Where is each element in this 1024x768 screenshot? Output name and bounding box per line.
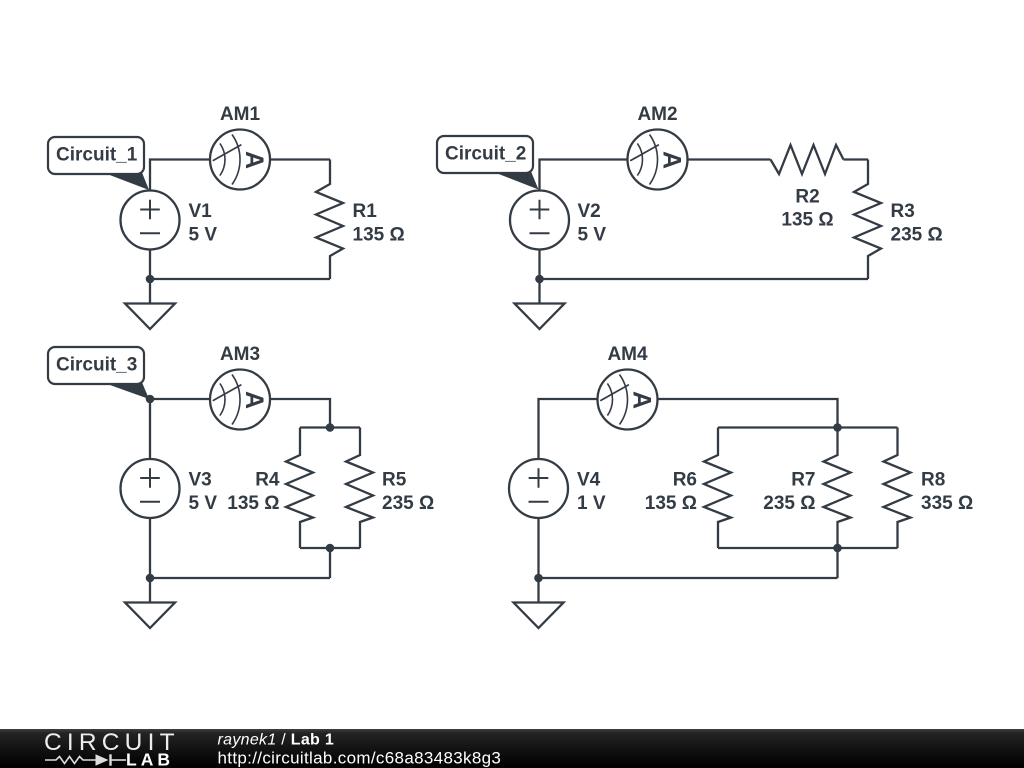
resistor R3 bbox=[854, 160, 943, 280]
svg-text:A: A bbox=[240, 151, 268, 169]
wire bbox=[658, 399, 838, 428]
svg-text:AM4: AM4 bbox=[607, 344, 648, 365]
wire bbox=[718, 547, 898, 549]
wire bbox=[540, 160, 628, 191]
wire bbox=[539, 577, 838, 579]
svg-text:Circuit_3: Circuit_3 bbox=[56, 355, 137, 376]
resistor R4 bbox=[227, 428, 313, 549]
wire bbox=[329, 548, 331, 578]
svg-text:1 V: 1 V bbox=[577, 493, 606, 514]
svg-text:135 Ω: 135 Ω bbox=[227, 493, 279, 514]
resistor R1 bbox=[316, 160, 405, 280]
junction bbox=[833, 423, 842, 432]
junction bbox=[833, 544, 842, 553]
svg-text:V1: V1 bbox=[189, 201, 213, 222]
svg-text:V3: V3 bbox=[189, 470, 212, 491]
svg-text:R8: R8 bbox=[921, 470, 945, 491]
wire bbox=[300, 547, 360, 549]
ammeter AM4 bbox=[598, 344, 658, 430]
svg-text:235 Ω: 235 Ω bbox=[763, 493, 815, 514]
svg-text:A: A bbox=[240, 391, 268, 409]
footer title raynek1 / Lab 1 bbox=[218, 732, 335, 749]
wire bbox=[718, 426, 898, 428]
wire bbox=[150, 160, 210, 191]
ground bbox=[514, 578, 564, 628]
resistor R6 bbox=[645, 428, 731, 549]
svg-text:http://circuitlab.com/c68a8348: http://circuitlab.com/c68a83483k8g3 bbox=[218, 749, 502, 768]
svg-text:5 V: 5 V bbox=[189, 225, 218, 246]
wire bbox=[300, 426, 360, 428]
wire bbox=[150, 278, 330, 280]
svg-text:R3: R3 bbox=[891, 201, 915, 222]
wire bbox=[150, 399, 210, 459]
svg-text:135 Ω: 135 Ω bbox=[645, 493, 697, 514]
logo LAB bbox=[126, 750, 174, 768]
wire bbox=[537, 518, 539, 578]
footer url bbox=[218, 749, 502, 768]
svg-text:raynek1 / Lab 1: raynek1 / Lab 1 bbox=[218, 732, 335, 749]
svg-text:Circuit_1: Circuit_1 bbox=[56, 145, 138, 166]
svg-text:AM1: AM1 bbox=[220, 104, 261, 125]
wire bbox=[149, 250, 151, 280]
svg-text:AM2: AM2 bbox=[637, 104, 677, 125]
svg-text:R6: R6 bbox=[673, 470, 697, 491]
svg-text:V2: V2 bbox=[578, 201, 601, 222]
svg-text:LAB: LAB bbox=[126, 750, 174, 768]
svg-text:335 Ω: 335 Ω bbox=[921, 493, 973, 514]
svg-text:R7: R7 bbox=[791, 470, 815, 491]
svg-text:A: A bbox=[658, 151, 686, 169]
svg-text:135 Ω: 135 Ω bbox=[353, 225, 405, 246]
wire bbox=[836, 548, 838, 578]
ground bbox=[125, 279, 175, 329]
voltage source V3 bbox=[121, 459, 218, 518]
wire bbox=[150, 577, 330, 579]
svg-text:R5: R5 bbox=[382, 470, 407, 491]
wire bbox=[270, 158, 330, 160]
svg-text:R1: R1 bbox=[353, 201, 378, 222]
wire bbox=[539, 399, 598, 459]
label Circuit_2 bbox=[437, 136, 539, 190]
svg-text:Circuit_2: Circuit_2 bbox=[445, 144, 526, 165]
wire bbox=[270, 399, 330, 428]
junction bbox=[326, 544, 335, 553]
svg-text:AM3: AM3 bbox=[220, 344, 260, 365]
svg-text:5 V: 5 V bbox=[189, 493, 218, 514]
junction bbox=[534, 574, 543, 583]
voltage source V4 bbox=[509, 459, 606, 518]
resistor R7 bbox=[763, 428, 850, 549]
junction bbox=[146, 275, 155, 284]
junction bbox=[535, 275, 544, 284]
ammeter AM1 bbox=[210, 104, 270, 190]
svg-text:235 Ω: 235 Ω bbox=[382, 493, 434, 514]
svg-text:R2: R2 bbox=[795, 186, 819, 207]
resistor R5 bbox=[346, 428, 434, 549]
svg-text:R4: R4 bbox=[255, 470, 280, 491]
logo CIRCUIT bbox=[44, 729, 180, 756]
voltage source V2 bbox=[510, 191, 606, 250]
ground bbox=[125, 578, 175, 628]
wire bbox=[538, 250, 540, 280]
svg-text:5 V: 5 V bbox=[578, 225, 607, 246]
svg-text:135 Ω: 135 Ω bbox=[781, 210, 833, 231]
label Circuit_1 bbox=[48, 137, 149, 190]
footer bar bbox=[0, 729, 1024, 768]
wire bbox=[688, 158, 771, 160]
ammeter AM3 bbox=[210, 344, 270, 430]
wire bbox=[149, 518, 151, 578]
svg-text:235 Ω: 235 Ω bbox=[891, 225, 943, 246]
label Circuit_3 bbox=[48, 347, 149, 399]
ammeter AM2 bbox=[628, 104, 688, 190]
junction bbox=[146, 574, 155, 583]
svg-text:V4: V4 bbox=[577, 470, 601, 491]
svg-text:A: A bbox=[628, 391, 656, 409]
junction bbox=[326, 423, 335, 432]
logo resistor-diode doodle bbox=[45, 754, 126, 765]
resistor R8 bbox=[884, 428, 974, 549]
voltage source V1 bbox=[121, 191, 218, 250]
wire bbox=[540, 278, 869, 280]
junction bbox=[146, 395, 155, 404]
ground bbox=[515, 279, 565, 329]
resistor R2 bbox=[771, 145, 844, 231]
wire bbox=[844, 158, 869, 160]
